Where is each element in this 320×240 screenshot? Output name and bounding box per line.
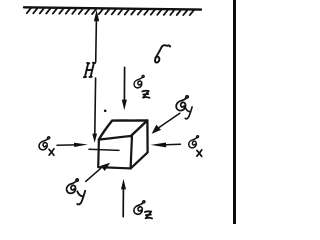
cube: right face edges <box>131 120 148 168</box>
arrow sigma_x right (points left at cube right face) <box>162 143 180 146</box>
dimension line H: lower arrowhead (points down to cube) <box>92 134 97 143</box>
dimension line H: upper shaft <box>95 20 98 62</box>
ground hatching <box>27 8 194 15</box>
arrow sigma_z top (points down at top face) <box>123 67 125 100</box>
arrow sigma_z bottom (points up at cube bottom) <box>122 189 124 217</box>
label sigma_y lower <box>67 179 79 193</box>
arrow sigma_y lower (points up-right at front face) <box>86 169 101 182</box>
speck (scan noise dot) <box>104 110 107 113</box>
dimension line H: lower shaft <box>94 78 97 134</box>
label gamma <box>155 45 170 62</box>
cube: front face interior centre line <box>89 149 119 150</box>
label sigma_x left <box>39 137 50 150</box>
label H <box>84 63 95 77</box>
cube: front face <box>98 136 132 169</box>
label sigma_z bottom <box>134 201 145 214</box>
label sigma_x right <box>189 136 199 148</box>
cube: top face edges <box>99 120 147 139</box>
dimension line H: upper arrowhead (points up to ground) <box>94 10 99 21</box>
arrow sigma_x left (points right at cube left face) <box>57 144 80 147</box>
right page border line <box>233 0 236 224</box>
label sigma_y upper <box>176 96 188 111</box>
label sigma_z top <box>134 75 144 87</box>
ground surface line <box>24 7 201 9</box>
arrow sigma_y upper (points down-left at top right corner) <box>159 113 179 127</box>
